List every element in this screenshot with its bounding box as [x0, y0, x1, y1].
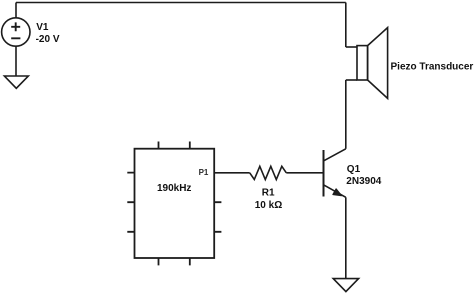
svg-text:-20 V: -20 V: [36, 34, 60, 45]
wire V1 bottom lead: [15, 46, 17, 76]
voltage source V1: [2, 18, 30, 46]
svg-text:Piezo Transducer: Piezo Transducer: [391, 62, 474, 73]
ground under V1: [4, 76, 28, 88]
wire resistor to base: [286, 172, 322, 174]
wire piezo top terminal: [346, 46, 357, 48]
resistor R1: [250, 166, 287, 179]
svg-text:P1: P1: [199, 168, 209, 177]
transistor Q1 (NPN): [324, 149, 346, 198]
svg-text:R1: R1: [262, 188, 275, 199]
wire top horizontal from V1 to piezo branch: [16, 2, 346, 4]
wire piezo branch vertical (top): [345, 3, 347, 48]
label Piezo Transducer: [391, 62, 474, 73]
label 190kHz: [157, 183, 191, 194]
label Q1 2N3904: [346, 164, 381, 187]
IC box 190kHz oscillator: [127, 142, 221, 266]
svg-text:190kHz: 190kHz: [157, 183, 191, 194]
wire V1 top lead: [15, 3, 17, 19]
svg-text:V1: V1: [36, 22, 49, 33]
ground at emitter: [333, 279, 358, 292]
label R1 value: [255, 188, 282, 211]
piezo transducer speaker symbol: [357, 28, 388, 99]
wire P1 to resistor: [214, 172, 250, 174]
label V1 value: [36, 22, 60, 45]
svg-text:Q1: Q1: [347, 164, 361, 175]
svg-text:2N3904: 2N3904: [346, 176, 381, 187]
svg-text:10 kΩ: 10 kΩ: [255, 200, 282, 211]
wire piezo to collector: [345, 80, 347, 149]
wire piezo bottom terminal: [346, 79, 357, 81]
pin P1 label: [199, 168, 209, 177]
wire emitter to ground: [345, 197, 347, 278]
